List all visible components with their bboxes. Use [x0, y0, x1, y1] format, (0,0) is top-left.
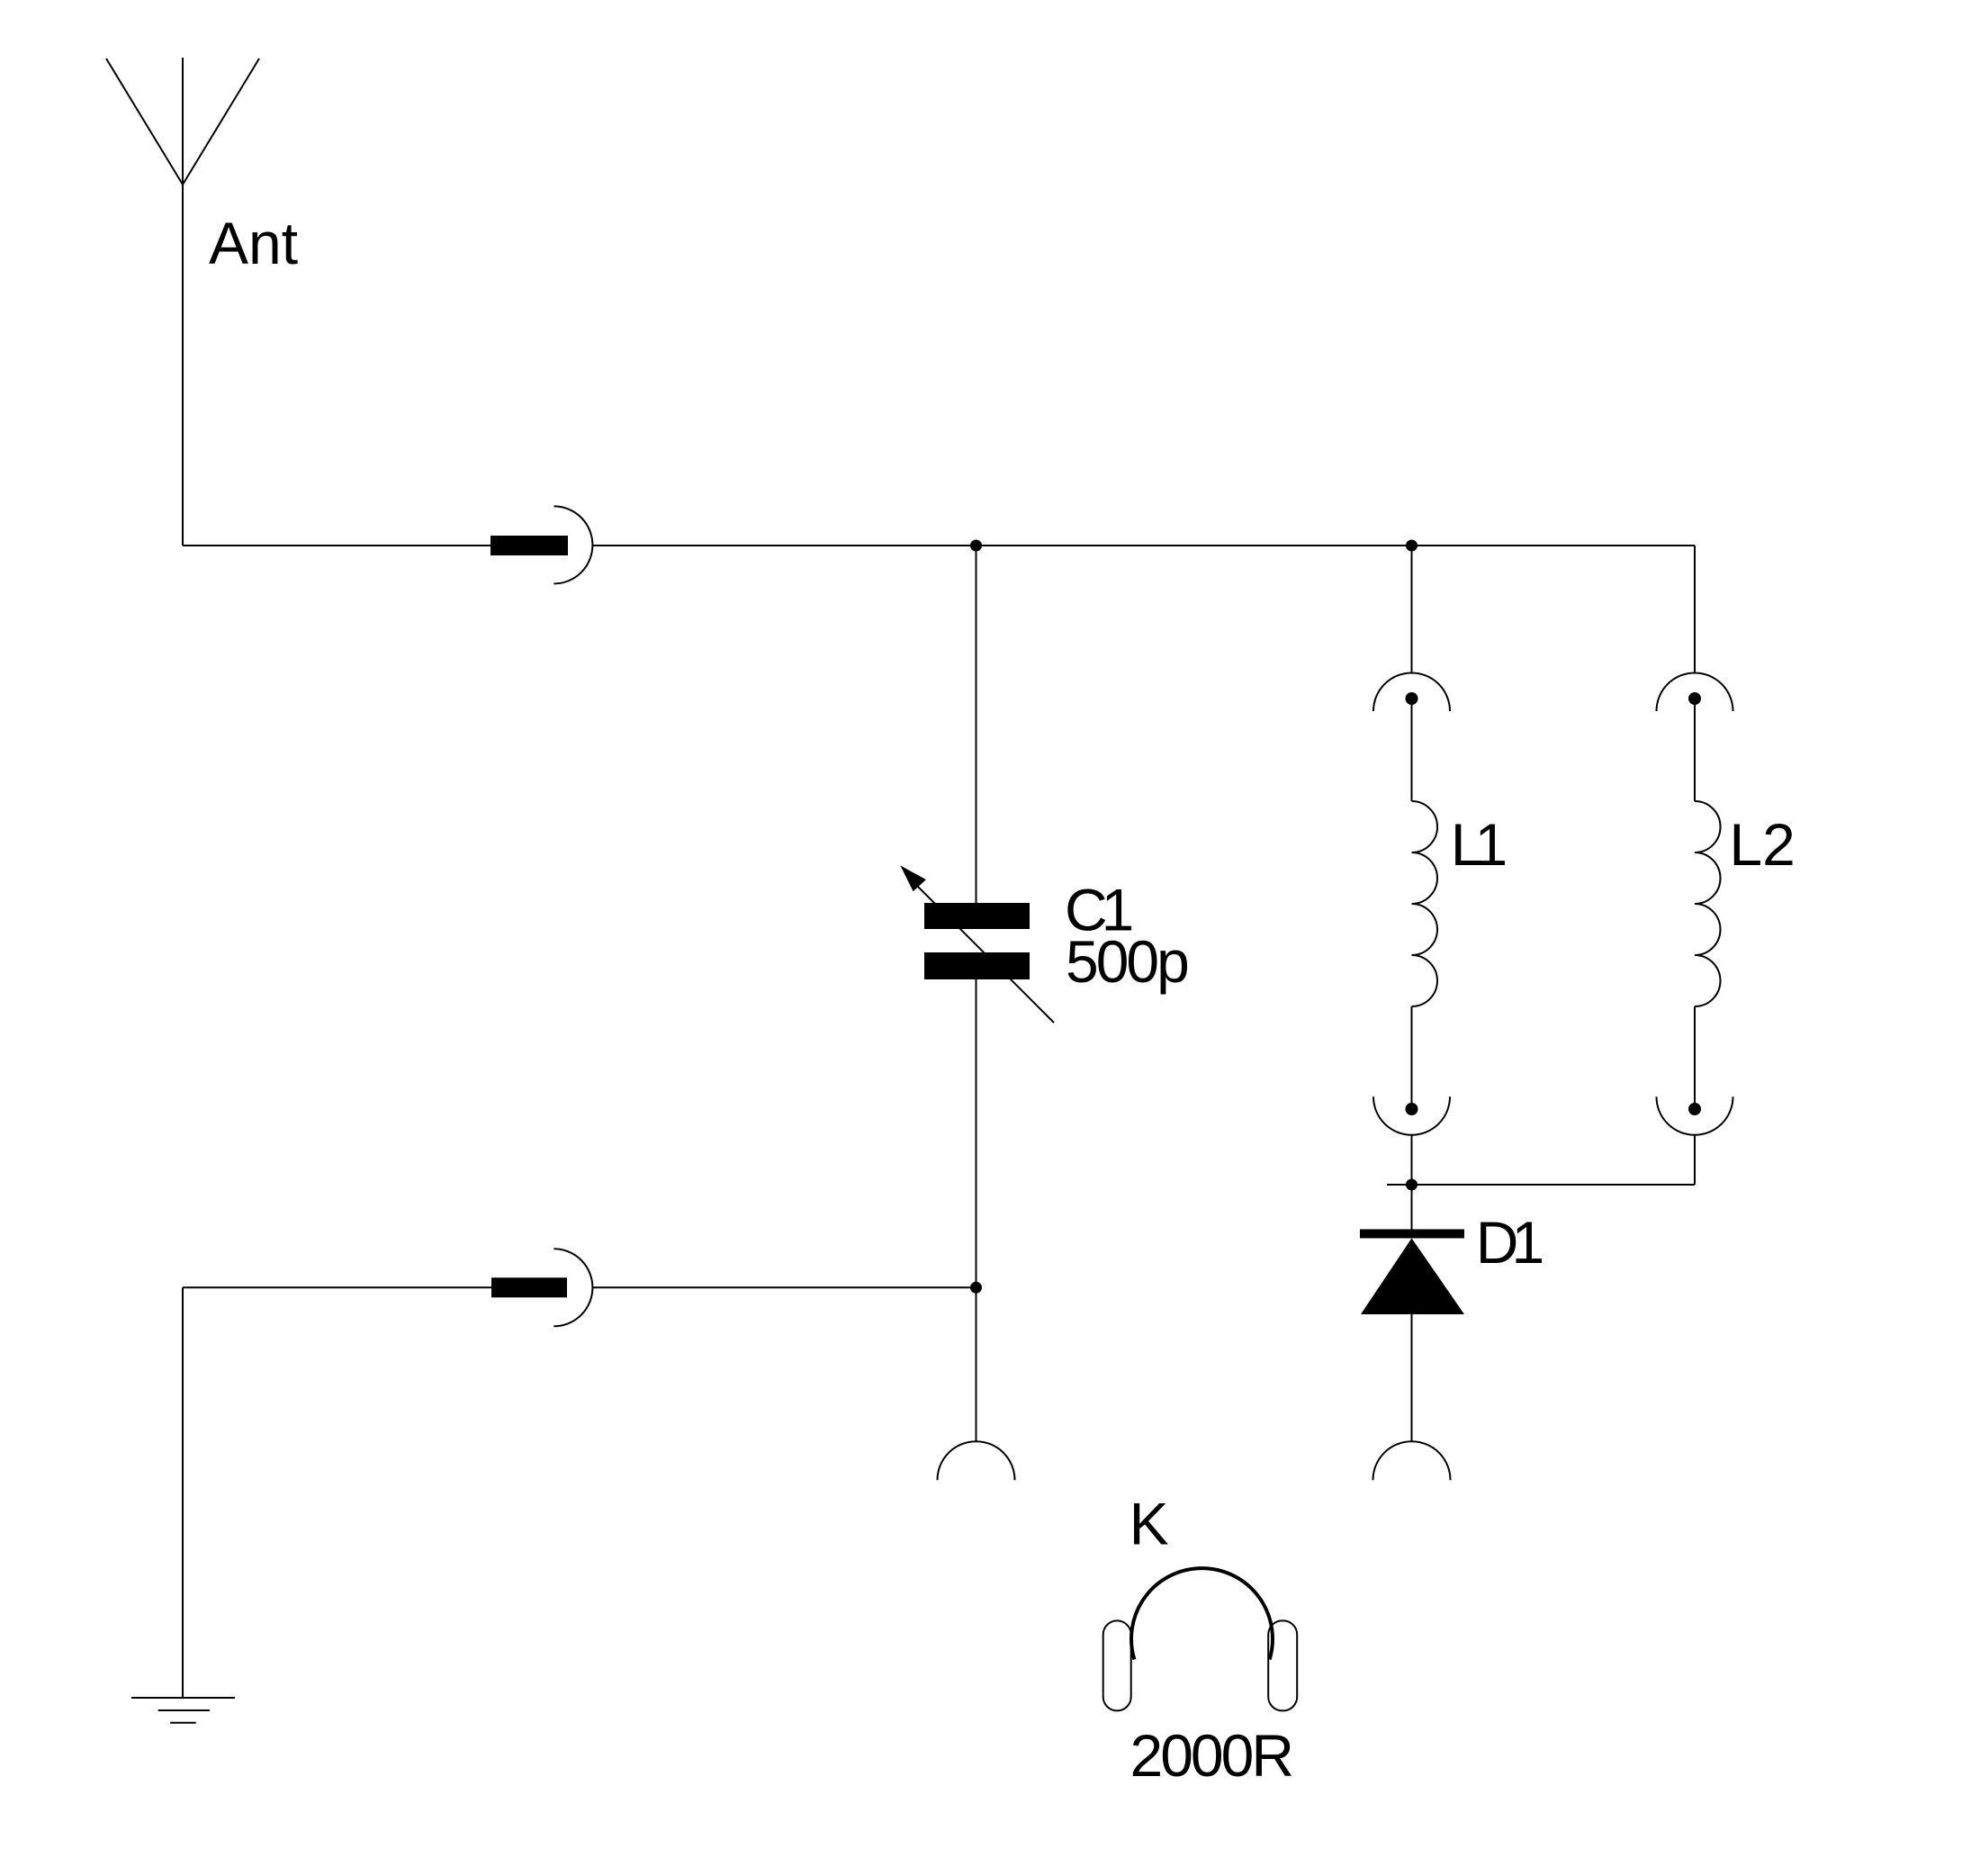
- wire L1 upper lead: [1411, 699, 1413, 801]
- antenna Ant: [106, 58, 259, 546]
- node L2 top pin: [1688, 692, 1701, 705]
- svg-text:K: K: [1129, 1491, 1169, 1557]
- wire top bus: [593, 545, 1696, 546]
- inductor L2: [1695, 801, 1721, 1006]
- connector socket J2: [553, 1249, 592, 1326]
- inductor L1: [1412, 801, 1438, 1006]
- capacitor C1 bottom plate: [924, 952, 1030, 979]
- socket arc L2 top: [1657, 673, 1733, 712]
- socket arc L1 bottom: [1373, 1096, 1450, 1135]
- wire C1 branch lower: [976, 979, 977, 1441]
- connector plug P2: [491, 1277, 567, 1297]
- headphones K: [1103, 1568, 1298, 1710]
- wire L2 upper lead: [1694, 699, 1696, 801]
- capacitor C1 variable arrow: [900, 865, 1054, 1023]
- node L1 bottom pin: [1406, 1103, 1418, 1115]
- socket arc phones left: [938, 1441, 1015, 1480]
- node junction top C1: [970, 540, 982, 552]
- socket arc phones right: [1373, 1441, 1451, 1480]
- svg-text:L2: L2: [1729, 811, 1795, 878]
- wire L2 top: [1694, 546, 1696, 673]
- diode D1: [1360, 1234, 1464, 1315]
- wire L2 bottom: [1694, 1135, 1696, 1185]
- svg-text:2000R: 2000R: [1130, 1722, 1292, 1789]
- wire L2 lower lead: [1694, 1006, 1696, 1109]
- svg-text:D1: D1: [1476, 1209, 1543, 1276]
- connector plug P1: [490, 536, 568, 555]
- node L1 top pin: [1406, 692, 1418, 705]
- wire lower left: [183, 1286, 491, 1288]
- connector socket J1: [553, 506, 592, 583]
- wire antenna to plug P1: [183, 545, 490, 546]
- wire diode anode top: [1411, 1185, 1413, 1230]
- node junction top L1: [1406, 540, 1417, 552]
- capacitor C1 top plate: [924, 903, 1030, 929]
- wire ground branch: [182, 1287, 184, 1698]
- node junction diode: [1406, 1179, 1417, 1191]
- svg-text:L1: L1: [1451, 811, 1506, 878]
- node junction lower wire: [970, 1282, 982, 1294]
- wire lower right: [593, 1286, 976, 1288]
- wire C1 branch upper: [976, 546, 977, 903]
- socket arc L2 bottom: [1657, 1096, 1733, 1135]
- wire diode cathode lead: [1411, 1314, 1413, 1441]
- wire L1 lower lead: [1411, 1006, 1413, 1109]
- socket arc L1 top: [1373, 673, 1450, 712]
- ground: [131, 1698, 235, 1723]
- node L2 bottom pin: [1688, 1103, 1701, 1115]
- wire L1 bottom: [1411, 1135, 1413, 1185]
- svg-text:Ant: Ant: [209, 210, 298, 276]
- wire L1 top: [1411, 546, 1413, 673]
- wire coils to diode junction: [1387, 1184, 1695, 1186]
- svg-text:500p: 500p: [1066, 928, 1187, 995]
